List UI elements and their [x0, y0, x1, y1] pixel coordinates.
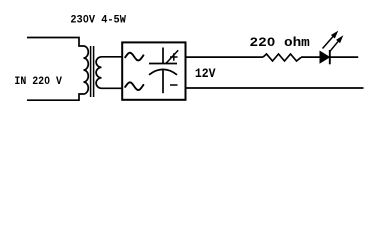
- capacitor C1 bottom lead: [162, 70, 164, 93]
- svg-text:220 ohm: 220 ohm: [250, 35, 310, 50]
- AC symbol upper ~: [125, 53, 143, 61]
- wire: LED cathode to output end: [330, 56, 358, 58]
- LED emission arrow 1: [321, 29, 341, 50]
- wire: secondary top to rectifier: [102, 56, 123, 58]
- svg-text:IN 220 V: IN 220 V: [14, 76, 62, 88]
- transformer T1 core: [90, 46, 92, 97]
- wire: mains top lead: [27, 38, 84, 47]
- transformer T1 secondary winding: [96, 57, 101, 89]
- capacitor C1 curved plate: [149, 69, 177, 74]
- wire: resistor to LED: [301, 56, 320, 58]
- capacitor C1 top plate: [149, 63, 177, 65]
- wire: mains bottom lead: [27, 94, 84, 100]
- bridge rectifier module box: [122, 42, 185, 99]
- minus marker: [170, 84, 178, 86]
- capacitor C1 top lead: [162, 48, 164, 64]
- LED emission arrow 2: [328, 34, 346, 54]
- svg-text:12V: 12V: [195, 66, 216, 81]
- wire: secondary bottom to rectifier: [102, 87, 123, 89]
- LED D1 cathode bar: [329, 50, 331, 64]
- resistor R1 220 ohm zigzag: [263, 54, 301, 61]
- plus marker with diagonal: [166, 50, 178, 63]
- wire: 0V rail: [186, 87, 364, 89]
- wire: +12V rail box to resistor: [186, 56, 263, 58]
- AC symbol lower ~: [125, 82, 143, 90]
- svg-text:230V 4-5W: 230V 4-5W: [70, 14, 126, 26]
- LED D1 triangle: [320, 51, 329, 63]
- transformer T1 primary winding: [84, 46, 89, 94]
